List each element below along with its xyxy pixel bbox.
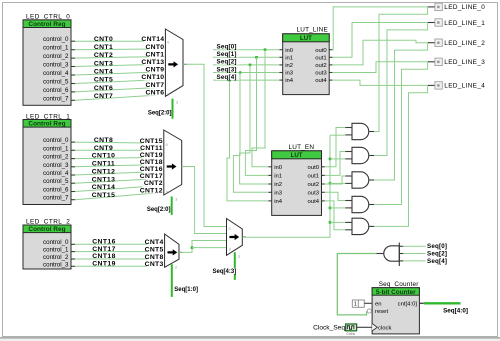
wire branch to G3 input	[330, 182, 345, 184]
select pin wire Seq[4:3] of mux M3	[234, 252, 236, 280]
wire G2 output to LED_LINE_1	[374, 23, 427, 156]
junction on Seq[2] net	[249, 64, 252, 67]
svg-text:CNT13: CNT13	[92, 176, 116, 183]
port stub control_1 of LED_CTRL_2	[71, 251, 75, 253]
port stub control_6 of LED_CTRL_0	[71, 91, 75, 93]
svg-text:Seq[4]: Seq[4]	[217, 74, 237, 81]
counter block Seq_Counter (5-bit Counter)	[372, 281, 419, 334]
svg-text:out3: out3	[308, 190, 320, 196]
port stub control_1 of LED_CTRL_1	[71, 149, 75, 151]
svg-text:in3: in3	[285, 71, 294, 77]
port stub control_6 of LED_CTRL_1	[71, 191, 75, 193]
mux M0 (8:1, sel Seq[2:0])	[165, 29, 186, 96]
svg-text:LUT: LUT	[300, 35, 312, 42]
register block LED_CTRL_1 (Control Reg)	[23, 113, 71, 204]
port stub control_0 of LED_CTRL_1	[71, 141, 75, 143]
svg-text:control_3: control_3	[43, 162, 69, 169]
svg-text:Seq_Counter: Seq_Counter	[379, 281, 420, 288]
wire CNT14	[75, 185, 164, 191]
svg-text:CNT1: CNT1	[94, 44, 113, 51]
select pin wire Seq[1:0] of mux M2	[171, 264, 173, 297]
wire CNT5	[75, 79, 165, 83]
port stub control_3 of LED_CTRL_1	[71, 166, 75, 168]
wire CNT15	[75, 192, 164, 199]
svg-text:CNT15: CNT15	[92, 192, 116, 199]
svg-text:control_7: control_7	[43, 96, 69, 103]
wire G4 output to LED_LINE_3	[374, 62, 427, 205]
svg-text:control_1: control_1	[43, 45, 69, 52]
port stub control_3 of LED_CTRL_0	[71, 66, 75, 68]
input stub of G6 for Seq[4]	[399, 260, 403, 262]
svg-text:control_0: control_0	[43, 239, 69, 246]
wire LUT_LINE out2 to LED_LINE_2	[332, 40, 428, 65]
svg-text:LED_LINE_4: LED_LINE_4	[444, 83, 485, 90]
svg-text:en: en	[375, 301, 382, 307]
wire CNT12	[75, 171, 164, 175]
svg-text:CNT15: CNT15	[140, 138, 163, 145]
svg-text:CNT0: CNT0	[145, 44, 164, 51]
svg-text:clock: clock	[378, 325, 391, 331]
svg-text:CNT16: CNT16	[92, 239, 116, 246]
output port LED_LINE_0	[428, 3, 485, 11]
svg-text:Control Reg: Control Reg	[28, 121, 65, 128]
net label Seq[4:3] at mux M3	[207, 268, 237, 274]
wire G5 output to LED_LINE_4	[374, 85, 427, 226]
svg-text:CNT6: CNT6	[94, 85, 113, 92]
svg-text:CNT17: CNT17	[140, 173, 163, 180]
svg-text:Seq[0]: Seq[0]	[427, 243, 447, 250]
svg-text:Control Reg: Control Reg	[28, 226, 65, 233]
svg-text:Seq[4:0]: Seq[4:0]	[443, 308, 468, 315]
svg-text:1: 1	[354, 302, 357, 308]
net labels at mux M1 inputs	[140, 137, 164, 194]
wire CNT16	[75, 243, 165, 245]
AND gate G5	[352, 218, 369, 234]
svg-text:out2: out2	[308, 182, 319, 188]
wire CNT18	[75, 258, 165, 260]
svg-text:Seq[0]: Seq[0]	[217, 44, 237, 51]
svg-text:CNT2: CNT2	[94, 52, 113, 59]
port stub cnt[4:0]	[419, 302, 423, 304]
svg-text:control_4: control_4	[43, 170, 69, 177]
svg-text:CNT11: CNT11	[92, 161, 115, 168]
net labels at mux M2 inputs	[145, 238, 164, 268]
net labels CNT0-CNT7	[94, 36, 113, 100]
svg-text:control_2: control_2	[43, 53, 69, 60]
svg-text:Clock_Seq: Clock_Seq	[313, 325, 345, 332]
svg-text:Seq[2]: Seq[2]	[427, 251, 447, 258]
wire G1 output to LED_LINE_0	[374, 7, 427, 132]
svg-text:CNT3: CNT3	[145, 261, 164, 268]
svg-text:CNT19: CNT19	[140, 152, 163, 159]
svg-text:control_7: control_7	[43, 195, 69, 202]
junction on M3 output net at G4	[329, 207, 332, 210]
wire LUT_LINE out1 to LED_LINE_1	[332, 23, 428, 58]
net labels Seq[0] Seq[2] Seq[4] at G6	[427, 243, 447, 265]
svg-text:LUT_LINE: LUT_LINE	[297, 26, 328, 33]
wire Clock_Seq to clock pin	[357, 326, 373, 328]
input stub of G6 for Seq[0]	[399, 245, 403, 247]
output port LED_LINE_4	[428, 82, 485, 90]
svg-text:2: 2	[175, 266, 177, 270]
svg-text:CNT19: CNT19	[92, 261, 116, 268]
junction on Seq[4] net	[228, 79, 231, 82]
wire CNT1	[75, 48, 165, 51]
svg-text:CNT18: CNT18	[92, 253, 116, 260]
svg-text:CNT16: CNT16	[140, 166, 163, 173]
port stub control_2 of LED_CTRL_0	[71, 57, 75, 59]
svg-text:in0: in0	[274, 165, 283, 171]
svg-text:control_2: control_2	[43, 154, 69, 161]
wire CNT11	[75, 164, 164, 167]
wire LUT_LINE out3 to LED_LINE_3	[332, 62, 428, 73]
svg-text:2: 2	[238, 255, 240, 259]
svg-text:7: 7	[167, 93, 169, 97]
wire CNT13	[75, 178, 164, 183]
svg-text:Seq[4:3]: Seq[4:3]	[213, 269, 237, 275]
svg-text:LUT_EN: LUT_EN	[289, 144, 315, 151]
wire LUT_LINE out4 to LED_LINE_4	[332, 80, 428, 85]
svg-text:control_3: control_3	[43, 262, 69, 269]
svg-text:CNT14: CNT14	[141, 36, 164, 43]
port stub control_0 of LED_CTRL_0	[71, 40, 75, 42]
junction on M3 output net at G2	[329, 158, 332, 161]
port stub control_4 of LED_CTRL_1	[71, 174, 75, 176]
mux M3 (4:1, sel Seq[4:3])	[227, 219, 246, 256]
wire LUT_EN out0 to G1	[325, 128, 345, 167]
mux M1 (8:1, sel Seq[2:0])	[164, 130, 185, 195]
wire CNT10	[75, 157, 164, 158]
wire CNT7	[75, 95, 165, 101]
AND gate G3	[352, 172, 369, 188]
svg-text:in4: in4	[274, 199, 283, 205]
port stub control_1 of LED_CTRL_0	[71, 49, 75, 51]
wire Seq[3] down to LUT_EN in3	[233, 73, 268, 193]
svg-text:CNT12: CNT12	[140, 187, 163, 194]
port stub control_2 of LED_CTRL_1	[71, 158, 75, 160]
wire CNT17	[75, 251, 165, 253]
svg-text:CNT0: CNT0	[94, 36, 113, 43]
wire Seq[4] down to LUT_EN in4	[227, 80, 268, 201]
LUT block LUT_LINE	[279, 26, 332, 94]
svg-text:out1: out1	[315, 55, 326, 61]
svg-text:control_0: control_0	[43, 137, 69, 144]
wire Seq[1] down to LUT_EN in1	[245, 57, 268, 175]
AND gate G2	[352, 147, 369, 163]
svg-text:CNT1: CNT1	[145, 51, 164, 58]
svg-text:CNT4: CNT4	[145, 239, 164, 246]
wire Seq[4] into G6	[403, 260, 425, 262]
svg-text:in0: in0	[285, 48, 294, 54]
svg-text:CNT10: CNT10	[141, 74, 164, 81]
wire CNT0	[75, 40, 165, 42]
wire mux M0 output to M3 in0	[183, 64, 227, 226]
junction on Seq[3] net	[239, 71, 242, 74]
input stub of G6 for Seq[2]	[399, 253, 403, 255]
wire G6 output to Seq_Counter reset	[337, 254, 376, 315]
wire branch to G5 input	[330, 221, 345, 223]
svg-text:in2: in2	[274, 182, 282, 188]
svg-text:CNT8: CNT8	[94, 137, 113, 144]
svg-text:in1: in1	[274, 174, 282, 180]
svg-text:Seq[2]: Seq[2]	[217, 59, 237, 66]
wire Seq[4] to LUT_LINE in4	[213, 79, 279, 81]
port stub control_3 of LED_CTRL_2	[71, 265, 75, 267]
svg-text:control_2: control_2	[43, 254, 69, 261]
svg-text:out1: out1	[308, 174, 319, 180]
svg-text:out2: out2	[315, 63, 326, 69]
constant block 1 (logic one)	[352, 300, 364, 308]
wire LUT_EN out4 to G5	[325, 201, 345, 230]
wire Seq[2] down to LUT_EN in2	[240, 65, 269, 184]
svg-text:control_6: control_6	[43, 87, 69, 94]
svg-text:CNT5: CNT5	[94, 77, 113, 84]
svg-text:in3: in3	[274, 190, 283, 196]
svg-text:CNT9: CNT9	[94, 145, 113, 152]
svg-text:LUT: LUT	[291, 152, 303, 159]
svg-text:CNT7: CNT7	[94, 93, 113, 100]
wire Seq[1] to LUT_LINE in1	[213, 56, 279, 58]
wire CNT4	[75, 72, 165, 75]
net labels Seq[0]-Seq[4]	[216, 43, 239, 81]
svg-text:control_6: control_6	[43, 187, 69, 194]
svg-text:out3: out3	[315, 71, 327, 77]
mux M2 (4:1, sel Seq[1:0])	[165, 234, 183, 267]
clock edge triangle on Seq_Counter	[372, 324, 377, 331]
svg-text:in4: in4	[285, 78, 294, 84]
register block LED_CTRL_0 (Control Reg)	[23, 14, 71, 106]
svg-text:in2: in2	[285, 63, 293, 69]
port stub control_7 of LED_CTRL_0	[71, 99, 75, 101]
svg-text:3: 3	[175, 198, 177, 202]
output port LED_LINE_3	[428, 58, 485, 66]
svg-text:CNT5: CNT5	[145, 246, 164, 253]
svg-text:CNT10: CNT10	[92, 153, 116, 160]
junction on mux M2 output net	[191, 246, 194, 249]
wire Seq[3] to LUT_LINE in3	[213, 72, 279, 74]
wire branch to G2 input	[330, 158, 345, 160]
svg-text:out4: out4	[308, 199, 320, 205]
svg-text:Seq[2:0]: Seq[2:0]	[148, 111, 172, 117]
svg-text:out0: out0	[315, 48, 327, 54]
wire LUT_LINE out0 to LED_LINE_0	[332, 7, 428, 50]
svg-text:CNT13: CNT13	[141, 59, 164, 66]
wire constant 1 to en	[364, 302, 372, 304]
wire LUT_EN out2 to G3	[325, 176, 345, 184]
svg-text:control_5: control_5	[43, 79, 69, 86]
svg-text:Control Reg: Control Reg	[28, 21, 65, 28]
wire mux M2 output to M3 in2	[179, 241, 227, 253]
wire mux M3 output up distribution	[242, 135, 330, 237]
output port LED_LINE_2	[428, 39, 485, 47]
AND gate G6 (mirrored, output left)	[377, 243, 400, 267]
wire LUT_EN out3 to G4	[325, 192, 345, 200]
port stub control_7 of LED_CTRL_1	[71, 199, 75, 201]
wire CNT3	[75, 64, 165, 66]
svg-text:control_5: control_5	[43, 178, 69, 185]
AND gate G4	[352, 196, 369, 212]
wire Seq[2] into G6	[403, 253, 425, 255]
svg-text:CNT12: CNT12	[92, 168, 116, 175]
wire CNT9	[75, 149, 164, 151]
svg-text:CNT7: CNT7	[145, 82, 164, 89]
port stub control_2 of LED_CTRL_2	[71, 258, 75, 260]
net labels CNT8-CNT15	[92, 137, 116, 199]
wire Seq[0] into G6	[403, 245, 425, 247]
wire LUT_EN out1 to G2	[325, 152, 345, 176]
register block LED_CTRL_2 (Control Reg)	[23, 219, 71, 269]
svg-text:control_0: control_0	[43, 36, 69, 43]
wire Seq[0] down to LUT_EN in0	[252, 50, 268, 167]
wire CNT6	[75, 87, 165, 92]
wire CNT8	[75, 142, 164, 143]
svg-text:in1: in1	[285, 55, 293, 61]
wire branch to G4 input	[330, 207, 345, 209]
svg-text:CNT9: CNT9	[145, 67, 164, 74]
port stub control_0 of LED_CTRL_2	[71, 243, 75, 245]
svg-text:0: 0	[229, 227, 231, 231]
svg-text:CNT14: CNT14	[92, 184, 116, 191]
svg-text:CNT11: CNT11	[140, 145, 163, 152]
svg-text:control_1: control_1	[43, 145, 69, 152]
svg-text:Seq[4]: Seq[4]	[427, 258, 447, 265]
svg-text:3: 3	[229, 247, 231, 251]
svg-text:Seq[3]: Seq[3]	[217, 66, 237, 73]
svg-text:CNT2: CNT2	[144, 180, 163, 187]
svg-text:0: 0	[167, 41, 169, 45]
svg-text:3: 3	[176, 100, 178, 104]
wire mux M1 output to M3 in1	[182, 167, 227, 234]
svg-text:0: 0	[166, 143, 168, 147]
svg-text:5-bit Counter: 5-bit Counter	[376, 289, 416, 296]
svg-text:out4: out4	[315, 78, 327, 84]
svg-text:cnt[4:0]: cnt[4:0]	[398, 301, 418, 307]
LUT block LUT_EN	[268, 144, 324, 215]
bus wire Seq[4:0]	[424, 302, 461, 304]
svg-text:CNT17: CNT17	[92, 246, 116, 253]
svg-text:Seq[1:0]: Seq[1:0]	[174, 287, 198, 293]
svg-text:CNT18: CNT18	[140, 159, 163, 166]
wire CNT19	[75, 265, 165, 267]
inverter bubble on reset pin	[367, 309, 371, 313]
wire CNT2	[75, 57, 165, 59]
svg-text:Seq[2:0]: Seq[2:0]	[147, 207, 171, 213]
wire G3 output to LED_LINE_2	[374, 43, 427, 180]
wire Seq[2] to LUT_LINE in2	[213, 64, 279, 66]
svg-text:CNT4: CNT4	[94, 69, 113, 76]
svg-text:0 kHz: 0 kHz	[346, 332, 355, 336]
port stub control_5 of LED_CTRL_1	[71, 182, 75, 184]
output port LED_LINE_1	[428, 19, 485, 27]
junction on Seq[0] net	[264, 48, 267, 51]
net labels at mux M0 inputs	[141, 35, 165, 96]
svg-text:control_3: control_3	[43, 62, 69, 69]
svg-text:out0: out0	[308, 165, 320, 171]
svg-text:LED_LINE_3: LED_LINE_3	[444, 59, 485, 66]
svg-text:Seq[1]: Seq[1]	[217, 51, 237, 58]
junction on Seq[1] net	[255, 56, 258, 59]
svg-text:LED_LINE_0: LED_LINE_0	[444, 4, 485, 11]
svg-text:CNT8: CNT8	[145, 254, 164, 261]
svg-text:CNT3: CNT3	[94, 60, 113, 67]
net labels CNT16-CNT19	[92, 239, 116, 268]
wire branch to G1 lower input	[330, 134, 345, 136]
port stub control_4 of LED_CTRL_0	[71, 74, 75, 76]
junction on M3 output net at G3	[329, 182, 332, 185]
wire Seq[0] to LUT_LINE in0	[213, 49, 279, 51]
svg-text:CNT6: CNT6	[145, 90, 164, 97]
svg-text:LED_LINE_1: LED_LINE_1	[444, 20, 485, 27]
AND gate G1	[352, 123, 369, 139]
junction on M3 output net at G5	[329, 221, 332, 224]
svg-text:reset: reset	[375, 309, 388, 315]
port stub control_5 of LED_CTRL_0	[71, 83, 75, 85]
wire branch to M3 in3	[192, 247, 227, 249]
select pin wire Seq[2:0] of mux M0	[172, 99, 174, 119]
svg-text:control_1: control_1	[43, 247, 69, 254]
svg-text:LED_LINE_2: LED_LINE_2	[444, 40, 485, 47]
svg-text:7: 7	[166, 190, 168, 194]
svg-text:control_4: control_4	[43, 70, 69, 77]
input port Clock_Seq (clock source)	[313, 324, 356, 336]
select pin wire Seq[2:0] of mux M1	[171, 197, 173, 215]
